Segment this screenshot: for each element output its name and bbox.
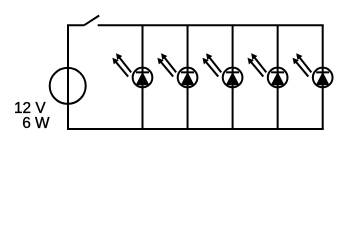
svg-text:6 W: 6 W — [22, 115, 50, 132]
